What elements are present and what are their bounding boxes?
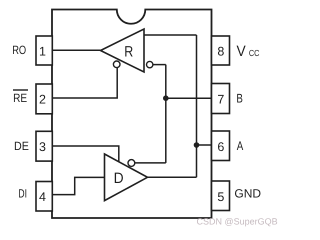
pin 5 box: [212, 181, 230, 211]
receiver enable bubble (RE): [113, 61, 120, 68]
junction node A: [194, 142, 200, 148]
svg-text:6: 6: [217, 140, 224, 154]
svg-text:RO: RO: [12, 43, 26, 57]
wire net B: driver bubble to bus: [135, 162, 166, 164]
svg-text:V: V: [237, 43, 246, 60]
pin 3 box: [36, 131, 52, 161]
IC body outline with pin-1 notch: [52, 10, 212, 219]
svg-text:7: 7: [217, 92, 224, 106]
svg-text:R: R: [124, 43, 133, 60]
svg-text:D: D: [114, 170, 124, 187]
svg-text:5: 5: [217, 190, 224, 204]
svg-text:2: 2: [39, 92, 46, 106]
wire net A vertical bus: [196, 35, 198, 177]
svg-text:4: 4: [39, 190, 46, 204]
pin 2 box: [36, 84, 52, 114]
svg-text:CC: CC: [249, 48, 260, 58]
svg-text:8: 8: [217, 44, 224, 58]
svg-text:CSDN @SuperGQB: CSDN @SuperGQB: [197, 217, 278, 227]
wire net A: D apex to bus: [148, 176, 197, 178]
pin 6 box: [212, 131, 230, 161]
driver inverting output bubble (B side): [128, 160, 135, 167]
wire net B vertical bus: [165, 65, 167, 163]
wire net B: bus to pin 7: [166, 97, 212, 99]
wire RE: pin2 right, up to enable bubble: [53, 67, 118, 98]
wire net A: bus to pin 6: [197, 144, 212, 146]
wire DI: pin4 jog to D input: [53, 177, 105, 194]
svg-text:1: 1: [39, 44, 46, 58]
wire net A: R upper input to vertical: [144, 34, 197, 36]
wire RO: pin1 to R apex: [53, 49, 101, 51]
pin 7 box: [212, 84, 230, 114]
wire net B: R inverting bubble to vertical bus: [153, 64, 166, 66]
RE overline: [13, 89, 28, 91]
pin 8 box: [212, 36, 230, 65]
wire DE: pin3 right, down to D top edge: [53, 146, 119, 162]
svg-text:3: 3: [39, 140, 46, 154]
svg-text:A: A: [237, 139, 244, 153]
svg-text:RE: RE: [13, 91, 27, 105]
svg-text:DE: DE: [14, 139, 29, 153]
receiver R triangle: [101, 29, 145, 72]
pin 1 box: [36, 36, 52, 65]
junction node B: [163, 95, 169, 101]
svg-text:GND: GND: [234, 187, 261, 201]
svg-text:DI: DI: [18, 187, 27, 201]
driver D triangle: [105, 154, 148, 201]
svg-text:B: B: [236, 92, 243, 106]
pin 4 box: [36, 182, 52, 212]
receiver inverting input bubble (B side): [147, 61, 153, 67]
